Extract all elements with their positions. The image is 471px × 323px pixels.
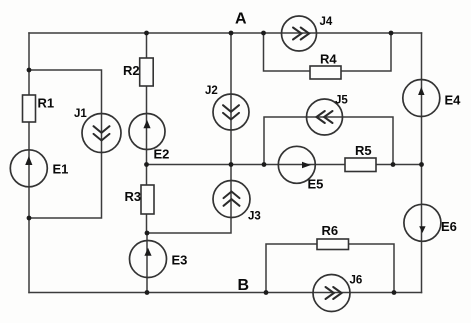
- node top/R4 left: [261, 31, 266, 36]
- node mid/J5 left: [262, 162, 267, 167]
- node R3-J3-E3: [145, 231, 150, 236]
- current source J3 circle: [213, 181, 250, 218]
- svg-text:R1: R1: [38, 96, 55, 111]
- svg-text:J6: J6: [350, 274, 363, 286]
- svg-text:R2: R2: [123, 63, 140, 78]
- node top/R4 right: [389, 31, 394, 36]
- svg-text:R5: R5: [355, 143, 372, 158]
- wire middle row: [147, 164, 422, 166]
- node mid/J5 right: [391, 162, 396, 167]
- voltage source E5 circle: [278, 146, 315, 183]
- J1 arrow chevrons (down): [94, 126, 110, 133]
- wire J2 branch: [230, 33, 232, 165]
- wire J3 branch: [147, 165, 231, 234]
- svg-text:E5: E5: [308, 177, 324, 192]
- node left/J1 bottom: [27, 216, 32, 221]
- E6 arrow head (down): [419, 226, 425, 233]
- wire bottom bus B: [29, 292, 422, 294]
- resistor R1: [23, 95, 36, 122]
- J5 arrow chevrons (left): [324, 111, 332, 123]
- node left/J1 top: [27, 68, 32, 73]
- current source J6 circle: [313, 275, 350, 312]
- E2 arrow head (up): [143, 120, 150, 129]
- wire R2-E2 branch: [146, 33, 148, 165]
- svg-text:R4: R4: [320, 52, 337, 67]
- E4 arrow head (up): [418, 87, 424, 95]
- voltage source E1 circle: [10, 150, 47, 187]
- voltage source E2 circle: [129, 114, 165, 150]
- resistor R3: [141, 185, 154, 214]
- voltage source E3 circle: [130, 241, 167, 278]
- wire J1 branch: [29, 70, 102, 218]
- E1 arrow head (up): [25, 156, 32, 165]
- svg-text:E3: E3: [172, 253, 188, 268]
- wire J5 loop: [264, 117, 393, 165]
- wire R3 branch: [146, 165, 148, 234]
- svg-text:B: B: [238, 277, 250, 294]
- node mid/right bus: [419, 162, 424, 167]
- wire left bus: [28, 33, 30, 293]
- current source J4 circle: [282, 16, 317, 51]
- svg-text:E6: E6: [441, 219, 457, 234]
- node bottom/R6 left: [264, 290, 269, 295]
- resistor R4: [310, 66, 341, 79]
- wire R6 loop: [266, 244, 394, 293]
- wire R4 loop: [264, 33, 392, 71]
- svg-text:A: A: [235, 11, 247, 28]
- node mid/E2-R3: [144, 162, 149, 167]
- E3 arrow head (up): [144, 248, 151, 256]
- svg-text:J5: J5: [335, 95, 348, 107]
- J6 arrow chevrons (right): [326, 287, 334, 299]
- node mid/J2-J3: [229, 162, 234, 167]
- svg-text:E1: E1: [53, 162, 69, 177]
- resistor R6: [317, 239, 349, 250]
- svg-text:J2: J2: [205, 85, 218, 97]
- wire right bus: [421, 33, 423, 293]
- svg-text:R3: R3: [125, 189, 142, 204]
- wire E3 branch: [146, 233, 148, 293]
- resistor R5: [345, 158, 376, 172]
- svg-text:E4: E4: [445, 93, 462, 108]
- J4 arrow chevrons (right): [293, 28, 301, 40]
- node top/J2 (A): [229, 31, 234, 36]
- voltage source E4 circle: [403, 80, 440, 117]
- J3 arrow chevrons (up): [224, 199, 240, 206]
- node bottom/R6 right: [392, 290, 397, 295]
- node top/R2: [144, 31, 149, 36]
- svg-text:J1: J1: [74, 108, 87, 120]
- wire top bus A: [29, 32, 422, 34]
- current source J2 circle: [213, 94, 249, 130]
- resistor R2: [140, 58, 154, 86]
- voltage source E6 circle: [404, 204, 441, 241]
- svg-text:J3: J3: [248, 210, 261, 222]
- svg-text:E2: E2: [154, 147, 170, 162]
- J2 arrow chevrons (down): [223, 105, 239, 112]
- svg-text:J4: J4: [320, 16, 333, 28]
- svg-text:R6: R6: [322, 223, 339, 238]
- current source J5 circle: [307, 99, 343, 135]
- current source J1 circle: [82, 114, 121, 153]
- node bottom/E3: [145, 290, 150, 295]
- E5 arrow head (right): [302, 162, 311, 168]
